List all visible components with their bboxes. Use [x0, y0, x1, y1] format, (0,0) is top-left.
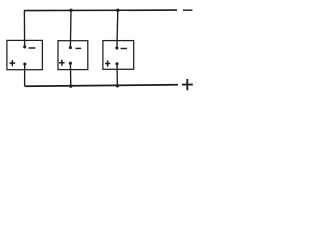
- cell B2 positive terminal node: [69, 62, 72, 65]
- cell B1 positive terminal node: [23, 62, 26, 65]
- wire: cell B3 top lead: [116, 10, 119, 48]
- node: junction bottom bus / B3 lead: [116, 84, 119, 87]
- cell B3 outline: [103, 41, 134, 70]
- minus terminal label (top right): [183, 9, 193, 11]
- cell B3 positive terminal node: [115, 62, 118, 65]
- cell B3 minus label: [121, 48, 128, 50]
- cell B2 plus label: [59, 60, 65, 66]
- cell B2 negative terminal node: [69, 46, 72, 49]
- cell B3 plus label: [105, 60, 110, 66]
- node: junction top bus / B3 lead: [116, 9, 119, 12]
- cell B3 negative terminal node: [115, 46, 118, 49]
- wire: bottom positive bus: [25, 85, 179, 87]
- node: junction bottom bus / B2 lead: [69, 84, 72, 87]
- node: junction top bus / B2 lead: [69, 9, 72, 12]
- cell B1 outline: [7, 40, 43, 69]
- cell B2 outline: [58, 41, 88, 70]
- plus terminal label (bottom right): [182, 79, 193, 90]
- wire: cell B2 bottom lead: [69, 63, 71, 86]
- cell B1 plus label: [10, 60, 16, 66]
- cell B1 negative terminal node: [23, 45, 26, 48]
- cell B1 minus label: [29, 47, 36, 49]
- wire: cell B3 bottom lead: [116, 64, 118, 86]
- wire: top negative bus: [24, 9, 177, 12]
- wire: cell B2 top lead: [69, 10, 72, 47]
- wire: cell B1 bottom lead: [24, 64, 26, 86]
- cell B2 minus label: [76, 47, 82, 49]
- wire: cell B1 top lead: [23, 11, 25, 47]
